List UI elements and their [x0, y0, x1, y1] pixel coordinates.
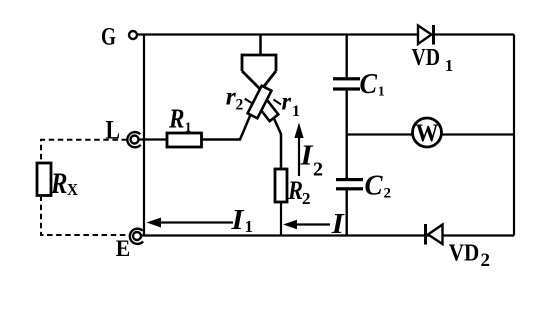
svg-text:X: X [67, 180, 79, 199]
capacitor C1 [333, 77, 360, 90]
svg-text:R: R [50, 167, 67, 200]
arrow I [283, 220, 330, 229]
svg-text:C: C [365, 170, 384, 202]
svg-text:2: 2 [302, 189, 311, 208]
svg-text:2: 2 [236, 97, 244, 114]
wire W branch [347, 133, 514, 135]
left vertical wire [143, 35, 145, 236]
coil r2 [248, 86, 272, 119]
svg-text:I: I [230, 204, 245, 236]
svg-text:W: W [416, 120, 439, 147]
crossed-coil meter pentagon [242, 35, 276, 91]
svg-text:E: E [116, 236, 131, 261]
pointer line r1 [274, 100, 282, 105]
capacitor C2 [336, 178, 363, 190]
svg-text:R: R [168, 104, 184, 134]
wire R1 to coil bend [202, 90, 262, 140]
coil r1 [257, 98, 279, 121]
svg-text:1: 1 [378, 85, 385, 100]
capacitor branch wire [346, 35, 348, 236]
svg-text:2: 2 [384, 186, 392, 202]
dashed wire Rx to E [41, 196, 130, 236]
terminal G [129, 31, 137, 39]
svg-text:G: G [101, 24, 116, 51]
svg-text:r: r [282, 88, 292, 115]
bottom wire [141, 234, 514, 236]
right edge wire [513, 35, 515, 236]
svg-text:I: I [331, 208, 346, 240]
diode VD2 [426, 224, 443, 245]
svg-text:2: 2 [481, 250, 491, 271]
resistor Rx [37, 163, 51, 196]
svg-text:1: 1 [185, 120, 192, 135]
svg-text:R: R [287, 176, 303, 205]
meter W [413, 118, 442, 147]
diode VD1 [418, 25, 434, 45]
top wire [137, 33, 514, 35]
terminal E [130, 229, 143, 244]
resistor R2 [275, 169, 287, 202]
terminal L [127, 132, 140, 147]
svg-text:1: 1 [292, 103, 300, 120]
svg-text:2: 2 [313, 159, 323, 181]
pointer line r2 [245, 99, 253, 104]
resistor R1 [167, 133, 202, 147]
svg-text:VD: VD [412, 45, 441, 71]
svg-text:C: C [360, 68, 378, 100]
dashed wire L to Rx [41, 140, 127, 163]
arrow I1 [147, 218, 234, 228]
svg-text:VD: VD [449, 241, 480, 267]
wire R2 to bottom [280, 202, 282, 236]
arrow I2 [294, 123, 303, 177]
svg-text:1: 1 [445, 56, 454, 75]
wire L to R1 [139, 138, 167, 140]
svg-text:1: 1 [245, 217, 254, 236]
wire coil to R2 [261, 90, 281, 169]
